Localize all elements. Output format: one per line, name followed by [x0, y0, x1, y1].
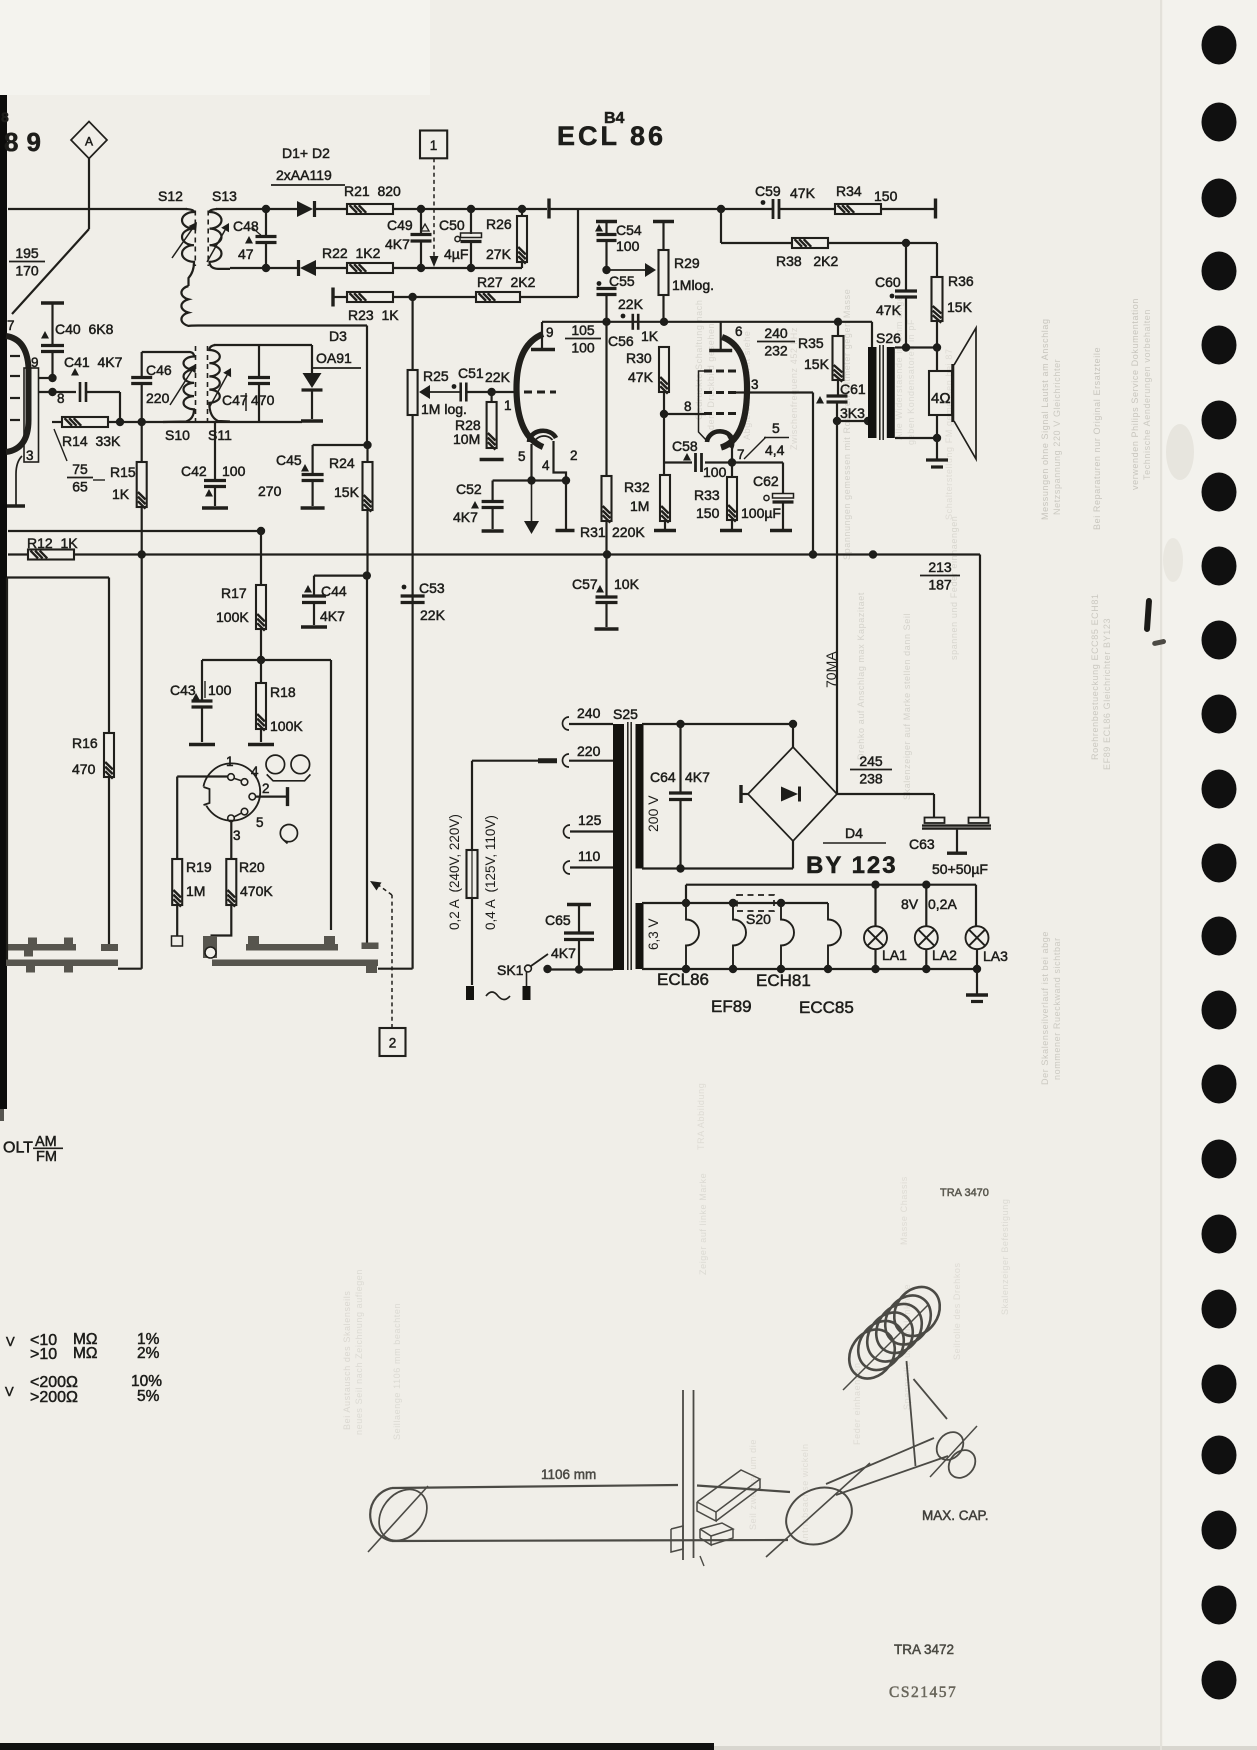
terminal bar R28 bottom [480, 458, 504, 461]
link pin1-pin4 [234, 778, 242, 781]
wire y209 from terminal to C59 [549, 208, 772, 210]
svg-text:S26: S26 [876, 330, 901, 346]
wire riser x367 down to C45 node [366, 326, 368, 446]
scan edge bottom bar [0, 1743, 714, 1750]
wiper arrow into R29 [607, 269, 646, 271]
svg-text:4K7: 4K7 [685, 769, 710, 785]
svg-text:1106 mm: 1106 mm [541, 1467, 596, 1482]
svg-text:47K: 47K [876, 302, 902, 318]
capacitor C52 [482, 500, 504, 503]
tube V1 grid marks [10, 355, 20, 357]
junction LA1 top [871, 881, 879, 889]
svg-text:nommener Rueckwand sichtbar: nommener Rueckwand sichtbar [1052, 937, 1062, 1080]
capacitor C47 [258, 345, 260, 377]
spring axis line [843, 1304, 929, 1390]
svg-text:OA91: OA91 [316, 350, 352, 366]
svg-text:Bei Austausch des Skalenseils: Bei Austausch des Skalenseils [342, 1291, 352, 1430]
bridge rectifier D4 diamond [748, 747, 837, 841]
junction bridge top [789, 720, 797, 728]
svg-text:0,2 A (240V, 220V): 0,2 A (240V, 220V) [447, 814, 462, 930]
potentiometer R25 (1M log) on riser [408, 370, 418, 415]
svg-text:C41 4K7: C41 4K7 [64, 354, 123, 370]
chassis group B (center) [203, 936, 217, 958]
terminal bar R18 bottom [248, 743, 274, 746]
svg-text:47: 47 [238, 246, 254, 262]
socket pin 4 [241, 779, 248, 786]
svg-text:S10: S10 [165, 427, 190, 443]
svg-text:R21 820: R21 820 [344, 183, 401, 199]
wire pin2 to chassis bar [565, 481, 567, 530]
idler pulley 1 [931, 1427, 969, 1465]
wire from node A down [88, 159, 90, 230]
wire R16 to chassis foot [108, 777, 110, 944]
bridge left terminal [739, 785, 742, 803]
resistor R28 [491, 392, 493, 402]
wire R14 to R15/S10 [108, 421, 163, 423]
svg-text:1Mlog.: 1Mlog. [672, 277, 714, 293]
junction cathode node left [527, 476, 535, 484]
junction R21/C49 [417, 205, 425, 213]
S25 secondary 200V bar [636, 724, 644, 869]
wire R17 to C43/R18 node [260, 629, 262, 660]
svg-text:C42: C42 [181, 463, 207, 479]
chassis long bar lower [212, 960, 378, 967]
svg-text:1K: 1K [112, 486, 130, 502]
svg-text:100: 100 [616, 238, 640, 254]
wire link to lamp rail [685, 885, 687, 903]
pulley axis line [930, 1426, 977, 1477]
wire R24 down to C44 node [366, 510, 368, 576]
inductor S12 primary winding [182, 209, 194, 286]
svg-text:50+50µF: 50+50µF [932, 861, 988, 877]
node A diamond [71, 122, 107, 159]
resistor R16 [104, 733, 114, 777]
ground bar C63 [947, 852, 967, 855]
tap hook 110 [564, 861, 570, 874]
diode D2 [300, 260, 316, 276]
svg-text:MΩ: MΩ [73, 1345, 98, 1362]
svg-text:7: 7 [7, 318, 15, 333]
paper crease line [1160, 0, 1162, 1750]
svg-text:C54: C54 [616, 222, 642, 238]
wire bridge bottom to 200V return [792, 841, 794, 869]
wire gang loop right side [330, 660, 332, 930]
wire pin8 to pentode grid [664, 413, 706, 415]
capacitor C51 [459, 383, 462, 402]
svg-text:>200Ω: >200Ω [30, 1389, 78, 1406]
inductor S11 winding [209, 345, 230, 422]
svg-text:232: 232 [764, 343, 788, 359]
junction LA2 top [922, 881, 930, 889]
terminal bar C45 bottom [301, 506, 325, 509]
svg-text:A: A [85, 135, 93, 149]
wire main top y209 from page edge to S12 [8, 208, 187, 210]
label 5/4,4 with leader [744, 437, 766, 459]
svg-text:R22 1K2: R22 1K2 [322, 245, 381, 261]
junction heater EF89 [729, 899, 737, 907]
svg-text:R25: R25 [423, 368, 449, 384]
svg-text:C64: C64 [650, 769, 676, 785]
S26 primary winding bar [868, 347, 877, 438]
svg-text:6: 6 [735, 324, 743, 339]
svg-text:200 V: 200 V [645, 795, 661, 832]
svg-text:100µF: 100µF [741, 505, 781, 521]
svg-text:C62: C62 [753, 473, 779, 489]
svg-text:470: 470 [251, 392, 275, 408]
capacitor C64 [679, 724, 681, 793]
wiper arrow into R25 [430, 391, 460, 393]
triode heater loop [534, 436, 553, 444]
svg-text:OLT: OLT [3, 1140, 33, 1157]
svg-text:SK1: SK1 [497, 962, 524, 978]
rotor circle [280, 825, 297, 842]
wire R14 left stem [52, 421, 62, 423]
inductor S12 secondary (large winding) [181, 286, 367, 326]
triode cathode [529, 431, 556, 442]
svg-text:3K3: 3K3 [840, 405, 865, 421]
svg-text:R18: R18 [270, 684, 296, 700]
wire pin2 to terminal [256, 795, 287, 797]
svg-text:4K7: 4K7 [385, 236, 410, 252]
main bus y554 from R12 to pentode area [74, 553, 980, 555]
svg-text:S12: S12 [158, 188, 183, 204]
bridge inner diode [781, 787, 798, 802]
tube V4 ECL86 triode envelope [516, 334, 543, 447]
svg-text:0,2A: 0,2A [928, 896, 957, 912]
svg-text:4µF: 4µF [444, 246, 468, 262]
resistor R34 [835, 204, 881, 214]
junction chassis stub [869, 550, 877, 558]
svg-text:Spannungen gemessen mit Roehre: Spannungen gemessen mit Roehrenvoltmeter… [842, 289, 852, 560]
junction C56/R29 [660, 318, 668, 326]
junction R24 top [363, 441, 371, 449]
svg-text:CS21457: CS21457 [889, 1684, 957, 1701]
wire 200V bottom to bridge [642, 867, 793, 869]
svg-text:105: 105 [571, 322, 595, 338]
wire R38 branch down from C59 node [720, 209, 722, 243]
wire R23 to R27 [393, 296, 476, 298]
tuning gang socket circle [203, 763, 260, 820]
svg-text:TRA 3470: TRA 3470 [940, 1187, 989, 1199]
S25 core lines [627, 722, 629, 970]
svg-text:MAX. CAP.: MAX. CAP. [922, 1508, 989, 1523]
terminal bar R33 bottom [720, 529, 742, 532]
svg-text:9: 9 [546, 325, 554, 340]
lamp LA3 [966, 926, 989, 949]
wire y531 from page edge [8, 530, 261, 532]
terminal bar C62 bottom [770, 529, 792, 532]
svg-text:1M: 1M [630, 498, 649, 514]
socket pin 3 [228, 815, 235, 822]
tube V4 ECL86 pentode envelope [721, 337, 747, 448]
svg-text:15K: 15K [947, 299, 973, 315]
svg-text:C58: C58 [672, 438, 698, 454]
svg-text:4K7: 4K7 [551, 945, 576, 961]
svg-text:R26: R26 [486, 216, 512, 232]
svg-text:3: 3 [751, 377, 759, 392]
svg-text:C45: C45 [276, 452, 302, 468]
wire chassis link left [6, 937, 8, 960]
resistor R30 [659, 347, 669, 392]
svg-text:15K: 15K [334, 484, 360, 500]
svg-text:C59: C59 [755, 183, 781, 199]
svg-text:Roehrenbestueckung ECC85 ECH81: Roehrenbestueckung ECC85 ECH81 [1090, 593, 1100, 760]
svg-text:C53: C53 [419, 580, 445, 596]
wire R22 to R26 foot [393, 267, 522, 269]
wire C45 node [313, 444, 368, 446]
terminal bar pin2 [556, 529, 575, 532]
svg-text:>10: >10 [30, 1346, 57, 1363]
pentode anode stub [720, 322, 722, 349]
socket pin 2 [249, 793, 256, 800]
punch holes [1202, 26, 1237, 65]
svg-text:R24: R24 [329, 455, 355, 471]
dashed wire from box 2 with arrow [391, 895, 393, 1028]
chassis foot R16 [101, 944, 118, 951]
wire C51 to grid [466, 391, 492, 393]
resistor R22 [347, 263, 393, 273]
svg-text:Skalenzeiger Befestigung: Skalenzeiger Befestigung [1000, 1199, 1010, 1315]
svg-text:C63: C63 [909, 836, 935, 852]
svg-text:213: 213 [928, 559, 952, 575]
socket pin 1 [228, 774, 235, 781]
switch contact bar 220 [538, 758, 557, 763]
dial cord drum cylinder [392, 1485, 678, 1488]
capacitor C48 [265, 213, 267, 236]
tap hook 240 [563, 717, 569, 730]
svg-text:LA3: LA3 [983, 948, 1008, 964]
capacitor C59 [772, 199, 775, 219]
wire S13 top to D1 [216, 208, 297, 210]
wire riser x412 R23-node down to chassis [412, 297, 414, 370]
junction C54/C55 [602, 266, 610, 274]
svg-text:FM: FM [36, 1149, 57, 1165]
fuse 0,2A/0,4A [472, 760, 538, 762]
wire R15 column foot [118, 968, 142, 970]
svg-text:Skalenzeiger auf Marke stellen: Skalenzeiger auf Marke stellen dann Seil [902, 613, 912, 800]
junction LA3 bottom [973, 965, 981, 973]
capacitor C56 in series [621, 314, 626, 319]
svg-text:9: 9 [31, 355, 39, 370]
terminal bar C52 bottom [482, 529, 504, 532]
sheet ref box 1 [420, 131, 447, 159]
svg-text:8: 8 [1, 109, 9, 125]
svg-text:100K: 100K [216, 609, 249, 625]
wire C61 node to S26 primary [837, 420, 868, 422]
trimmer circles of gang [266, 755, 285, 774]
wire pin3 riser down to bus [812, 393, 814, 555]
S25 secondary 6.3V bar [636, 903, 644, 969]
tap hook 125 [564, 825, 570, 838]
svg-text:geben Kondensatoren in pF: geben Kondensatoren in pF [906, 319, 916, 445]
heater ECH81 [781, 903, 794, 969]
cord spring to pulleys vertical [907, 1361, 916, 1466]
link pin5-pin3 [234, 813, 242, 817]
junction C60 bottom [902, 343, 910, 351]
svg-text:R31: R31 [580, 524, 606, 540]
svg-text:2: 2 [262, 781, 270, 796]
wire S26 primary top [871, 322, 873, 347]
svg-text:C49: C49 [387, 217, 413, 233]
wire S13 bottom to D2 [230, 267, 299, 269]
inductor S10 winding [142, 352, 194, 422]
junction C50 top [467, 205, 475, 213]
wire screen grid pin3 [736, 391, 813, 393]
resistor R24 [366, 445, 368, 462]
junction R28 top [487, 388, 495, 396]
heater ECL86 [686, 903, 699, 969]
junction R15 bottom [138, 550, 146, 558]
wire between cathode nodes [532, 479, 567, 481]
tuning arrow S12 [172, 229, 192, 258]
tube V1 cathode tail and terminal [16, 456, 22, 505]
svg-text:R12 1K: R12 1K [27, 535, 78, 551]
terminal bar D3 cathode [301, 419, 323, 422]
junction R23/R25 column [408, 293, 416, 301]
S25 primary winding bar [613, 724, 624, 970]
svg-text:R35: R35 [798, 335, 824, 351]
wire LA3 to ground [976, 969, 978, 994]
resistor R14 [62, 417, 108, 427]
svg-text:4: 4 [542, 458, 550, 473]
capacitor C40 [41, 344, 64, 347]
lamp LA1 [864, 926, 887, 949]
svg-text:ECL 86: ECL 86 [557, 121, 666, 151]
left pulley ellipse [369, 1480, 437, 1550]
svg-text:100K: 100K [270, 718, 303, 734]
svg-text:Seilrolle des Drehkos: Seilrolle des Drehkos [952, 1262, 962, 1360]
svg-text:Technische Aenderungen vorbeha: Technische Aenderungen vorbehalten [1142, 309, 1152, 480]
resistor R18 [260, 660, 262, 683]
svg-text:R36: R36 [948, 273, 974, 289]
junction speaker top [933, 343, 941, 351]
svg-text:5: 5 [256, 815, 264, 830]
junction C59/R38 [717, 205, 725, 213]
terminal bar end of AM line [547, 199, 550, 219]
svg-text:47K: 47K [790, 185, 816, 201]
svg-text:22K: 22K [420, 607, 446, 623]
wire pin3 to R20 [230, 822, 232, 859]
svg-text:220K: 220K [612, 524, 645, 540]
svg-text:C48: C48 [233, 218, 259, 234]
wire S10/S11 bottom [163, 421, 302, 423]
svg-text:100: 100 [703, 464, 727, 480]
wire heater supply 6,3V [642, 902, 828, 904]
junction heater ECL86 [682, 899, 690, 907]
wire D2 to R22 [316, 267, 347, 269]
svg-text:ECH81: ECH81 [756, 971, 811, 990]
svg-text:C43: C43 [170, 682, 196, 698]
wire R27 to riser [520, 296, 578, 298]
svg-text:150: 150 [696, 505, 720, 521]
potentiometer R29 (1M log) [653, 220, 674, 223]
capacitor C43 [201, 660, 203, 701]
svg-text:C60: C60 [875, 274, 901, 290]
svg-text:4Ω: 4Ω [931, 390, 951, 407]
wire C59 to R34 [780, 208, 835, 210]
junction returns [682, 965, 690, 973]
junction C60 top [902, 239, 910, 247]
wire R30col to C58 [663, 414, 665, 463]
resistor R15 [141, 422, 143, 462]
svg-text:4: 4 [251, 764, 259, 779]
svg-text:C61: C61 [840, 381, 866, 397]
svg-text:2%: 2% [137, 1345, 160, 1362]
svg-text:R38 2K2: R38 2K2 [776, 253, 838, 269]
svg-text:C47: C47 [222, 392, 248, 408]
IF transformer S12/S13 core [194, 211, 196, 267]
chassis bar left upper [6, 944, 76, 951]
IF transformer S10/S11 core [195, 346, 197, 424]
svg-text:C40 6K8: C40 6K8 [55, 321, 114, 337]
svg-text:27K: 27K [486, 246, 512, 262]
tap hook 220 [563, 754, 569, 767]
svg-text:EF89: EF89 [711, 997, 752, 1016]
svg-text:100: 100 [222, 463, 246, 479]
junction C48 bottom [262, 264, 270, 272]
svg-text:187: 187 [928, 577, 952, 593]
resistor R23 [347, 292, 393, 302]
junction grid3 node [660, 410, 668, 418]
mains pin switch side [526, 972, 528, 986]
mains cord squiggle [486, 992, 510, 1000]
svg-text:240: 240 [577, 705, 601, 721]
svg-text:4K7: 4K7 [453, 509, 478, 525]
svg-text:V: V [6, 1334, 15, 1349]
svg-text:R17: R17 [221, 585, 247, 601]
svg-text:verwenden Philips Service Doku: verwenden Philips Service Dokumentation [1130, 298, 1140, 490]
svg-text:47K: 47K [628, 369, 654, 385]
terminal bar right of R34 [934, 199, 937, 219]
S26 secondary winding bar [887, 347, 895, 438]
svg-text:D4: D4 [845, 825, 863, 841]
pointer carriage bracket [697, 1470, 760, 1512]
svg-text:BY 123: BY 123 [806, 852, 898, 879]
dashed wire from box 1 down with arrow [433, 158, 435, 257]
capacitor C46 [141, 352, 143, 377]
junction cathode node right [562, 476, 570, 484]
resistor R31 [605, 322, 607, 476]
tension spring coil [840, 1321, 904, 1388]
capacitor C57 [605, 555, 607, 598]
junction C44 [363, 571, 371, 579]
wire R38 to R36 corner [828, 242, 937, 244]
ground speaker [926, 458, 948, 461]
sheet ref box 2 [380, 1028, 406, 1056]
junction R35 top [834, 318, 842, 326]
chassis foot x109 [101, 944, 118, 951]
wire speaker bottom to ground [936, 415, 938, 459]
junction C41 column [116, 418, 124, 426]
svg-text:Bei Reparaturen nur Original E: Bei Reparaturen nur Original Ersatzteile [1092, 347, 1102, 530]
svg-text:1: 1 [430, 138, 438, 153]
svg-text:1M log.: 1M log. [421, 401, 467, 417]
svg-text:Drehko auf Anschlag max Kapazi: Drehko auf Anschlag max Kapazitaet [856, 592, 866, 760]
arrow to ground from pin5 node [531, 481, 533, 522]
scan edge black strip left [0, 95, 7, 1109]
resistor R33 [731, 463, 733, 478]
chassis bar left lower [6, 960, 118, 967]
lamp rail wire [686, 884, 976, 886]
wire bridge top to 200V rail [792, 724, 794, 747]
svg-text:22K: 22K [618, 296, 644, 312]
svg-text:4K7: 4K7 [320, 608, 345, 624]
wire S26 secondary bottom to speaker [895, 437, 937, 439]
svg-text:C57: C57 [572, 576, 598, 592]
wire y322 main HT rail [542, 321, 872, 323]
capacitor C45 [312, 445, 314, 474]
switch S20 dashed box [737, 895, 774, 911]
